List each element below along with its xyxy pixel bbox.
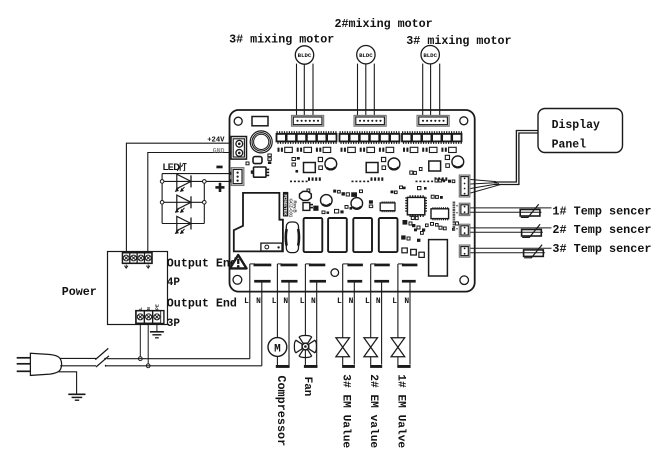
svg-text:3# Temp sencer: 3# Temp sencer	[552, 242, 651, 256]
svg-text:FDMSTEK: FDMSTEK	[283, 195, 288, 217]
svg-text:+24V: +24V	[207, 137, 225, 145]
svg-text:Panel: Panel	[552, 139, 587, 152]
svg-text:L: L	[392, 297, 397, 306]
svg-text:1# Temp sencer: 1# Temp sencer	[552, 204, 651, 218]
svg-text:L: L	[138, 307, 144, 310]
svg-text:3P: 3P	[167, 318, 181, 330]
svg-text:2#mixing motor: 2#mixing motor	[335, 17, 433, 31]
svg-text:4P: 4P	[167, 277, 181, 289]
svg-text:N: N	[311, 297, 316, 306]
svg-text:Output End: Output End	[167, 296, 237, 310]
svg-text:Power: Power	[62, 285, 97, 299]
svg-text:GND: GND	[213, 147, 225, 154]
svg-text:1# EM Ualve: 1# EM Ualve	[394, 374, 406, 448]
svg-text:M: M	[274, 343, 281, 355]
svg-text:BLDC: BLDC	[423, 52, 437, 59]
svg-text:GCZ-C01: GCZ-C01	[288, 199, 293, 218]
svg-text:2# Temp sencer: 2# Temp sencer	[552, 223, 651, 237]
svg-text:N: N	[404, 297, 409, 306]
svg-text:N: N	[349, 297, 354, 306]
svg-text:3# mixing motor: 3# mixing motor	[406, 34, 511, 48]
svg-text:N: N	[256, 297, 261, 306]
svg-text:L: L	[337, 297, 342, 306]
svg-text:Fan: Fan	[301, 377, 313, 397]
svg-text:N: N	[283, 297, 288, 306]
svg-text:Output End: Output End	[167, 256, 237, 270]
svg-text:Compressor: Compressor	[274, 375, 288, 446]
svg-text:PE: PE	[155, 304, 161, 310]
svg-text:L: L	[272, 297, 277, 306]
svg-text:N: N	[146, 307, 152, 310]
svg-text:3# mixing motor: 3# mixing motor	[229, 33, 334, 47]
svg-text:BLDC: BLDC	[298, 52, 312, 59]
svg-text:L: L	[300, 297, 305, 306]
svg-text:3# EM Ualue: 3# EM Ualue	[339, 374, 351, 448]
svg-text:L: L	[244, 297, 249, 306]
svg-text:Display: Display	[552, 119, 600, 132]
svg-text:2# EM value: 2# EM value	[367, 374, 379, 448]
svg-text:BLDC: BLDC	[359, 52, 373, 59]
svg-text:N: N	[376, 297, 381, 306]
svg-text:L: L	[365, 297, 370, 306]
svg-text:Rev.B: Rev.B	[293, 201, 298, 213]
